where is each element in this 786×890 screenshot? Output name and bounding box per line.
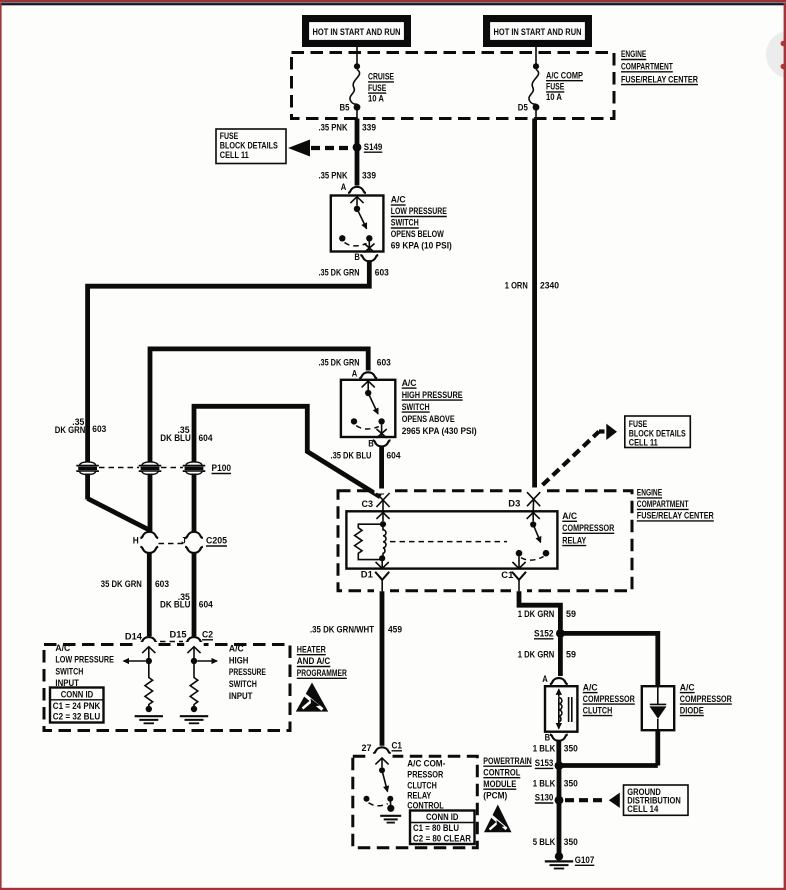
svg-text:DK GRN: DK GRN <box>55 425 86 435</box>
svg-text:C205: C205 <box>206 536 227 546</box>
svg-text:A: A <box>542 674 548 684</box>
svg-text:MODULE: MODULE <box>483 779 516 789</box>
svg-text:OPENS ABOVE: OPENS ABOVE <box>402 414 455 424</box>
svg-text:1 BLK: 1 BLK <box>533 778 556 788</box>
svg-text:FUSE: FUSE <box>220 131 239 141</box>
svg-text:10 A: 10 A <box>368 93 385 103</box>
svg-text:COMPRESSOR: COMPRESSOR <box>583 694 636 704</box>
svg-text:A: A <box>341 182 347 192</box>
svg-text:604: 604 <box>199 433 213 443</box>
svg-text:B5: B5 <box>340 102 350 112</box>
svg-text:HOT IN START AND RUN: HOT IN START AND RUN <box>494 27 582 37</box>
svg-text:CLUTCH: CLUTCH <box>583 705 613 715</box>
svg-text:.35 DK GRN: .35 DK GRN <box>319 267 360 277</box>
svg-text:FUSE/RELAY CENTER: FUSE/RELAY CENTER <box>637 511 715 521</box>
svg-text:A: A <box>352 369 358 379</box>
svg-text:A/C COM-: A/C COM- <box>407 758 445 768</box>
svg-text:J: J <box>181 536 186 546</box>
svg-text:PRESSOR: PRESSOR <box>407 769 444 779</box>
svg-text:COMPRESSOR: COMPRESSOR <box>562 523 615 533</box>
svg-text:1 DK GRN: 1 DK GRN <box>518 609 555 619</box>
svg-text:C1: C1 <box>501 570 513 580</box>
svg-text:HIGH PRESSURE: HIGH PRESSURE <box>402 390 463 400</box>
svg-text:27: 27 <box>362 743 372 753</box>
svg-text:350: 350 <box>564 778 578 788</box>
svg-text:5 BLK: 5 BLK <box>533 837 556 847</box>
svg-text:ENGINE: ENGINE <box>637 488 662 498</box>
svg-text:CONTROL: CONTROL <box>407 801 444 811</box>
svg-text:LOW PRESSURE: LOW PRESSURE <box>391 206 447 216</box>
svg-text:G107: G107 <box>575 855 595 865</box>
svg-text:CONN ID: CONN ID <box>61 689 93 699</box>
svg-text:69 KPA (10 PSI): 69 KPA (10 PSI) <box>391 241 452 251</box>
svg-text:SWITCH: SWITCH <box>391 218 419 228</box>
svg-text:DIODE: DIODE <box>680 705 704 715</box>
svg-text:2340: 2340 <box>540 281 559 291</box>
svg-text:A/C: A/C <box>391 195 406 205</box>
svg-text:PROGRAMMER: PROGRAMMER <box>297 668 347 678</box>
svg-text:C2 = 32 BLU: C2 = 32 BLU <box>53 712 101 722</box>
svg-text:A/C: A/C <box>402 378 417 388</box>
svg-text:FUSE: FUSE <box>546 82 564 92</box>
svg-text:350: 350 <box>564 837 578 847</box>
svg-text:604: 604 <box>199 600 213 610</box>
svg-text:COMPARTMENT: COMPARTMENT <box>637 499 689 509</box>
svg-text:B: B <box>354 252 360 262</box>
svg-text:C2: C2 <box>202 629 213 639</box>
svg-text:SWITCH: SWITCH <box>229 679 257 689</box>
svg-text:D14: D14 <box>125 631 142 641</box>
svg-text:LOW PRESSURE: LOW PRESSURE <box>55 655 114 665</box>
svg-text:2965 KPA (430 PSI): 2965 KPA (430 PSI) <box>402 426 477 436</box>
svg-text:HOT IN START AND RUN: HOT IN START AND RUN <box>313 27 401 37</box>
svg-text:D5: D5 <box>518 102 528 112</box>
svg-text:CELL 14: CELL 14 <box>627 804 658 814</box>
svg-text:S149: S149 <box>364 142 383 152</box>
svg-text:DK BLU: DK BLU <box>160 433 191 443</box>
svg-text:A/C: A/C <box>680 682 695 692</box>
svg-text:P100: P100 <box>212 463 232 473</box>
svg-text:DK BLU: DK BLU <box>160 600 191 610</box>
svg-text:INPUT: INPUT <box>229 691 253 701</box>
svg-text:C3: C3 <box>362 499 374 509</box>
svg-text:603: 603 <box>155 579 169 589</box>
svg-text:D3: D3 <box>508 498 520 508</box>
svg-text:FUSE: FUSE <box>368 83 386 93</box>
svg-text:603: 603 <box>375 267 389 277</box>
svg-text:S153: S153 <box>535 758 554 768</box>
svg-text:.35 DK GRN/WHT: .35 DK GRN/WHT <box>310 624 375 634</box>
svg-text:603: 603 <box>377 358 391 368</box>
svg-text:D15: D15 <box>170 629 187 639</box>
svg-text:ENGINE: ENGINE <box>621 49 646 59</box>
svg-text:.35 DK BLU: .35 DK BLU <box>331 451 372 461</box>
svg-text:S130: S130 <box>535 793 554 803</box>
svg-text:339: 339 <box>362 171 376 181</box>
svg-text:CELL 11: CELL 11 <box>629 437 658 447</box>
svg-text:COMPRESSOR: COMPRESSOR <box>680 694 733 704</box>
svg-text:59: 59 <box>566 609 576 619</box>
svg-text:10 A: 10 A <box>546 92 563 102</box>
svg-text:C1 = 24 PNK: C1 = 24 PNK <box>53 701 101 711</box>
svg-text:SWITCH: SWITCH <box>402 402 430 412</box>
svg-text:A/C: A/C <box>55 643 70 653</box>
svg-text:H: H <box>133 536 139 546</box>
svg-text:A/C: A/C <box>229 644 244 654</box>
svg-text:CELL 11: CELL 11 <box>220 150 249 160</box>
svg-text:D1: D1 <box>361 569 373 579</box>
svg-text:CLUTCH: CLUTCH <box>407 780 437 790</box>
svg-text:603: 603 <box>92 424 106 434</box>
svg-text:AND A/C: AND A/C <box>297 656 331 666</box>
svg-text:RELAY: RELAY <box>562 535 586 545</box>
svg-text:C2 = 80 CLEAR: C2 = 80 CLEAR <box>413 833 472 843</box>
svg-text:C1: C1 <box>392 740 403 750</box>
svg-text:POWERTRAIN: POWERTRAIN <box>483 756 532 766</box>
svg-text:.35 PNK: .35 PNK <box>319 171 349 181</box>
svg-text:339: 339 <box>362 122 376 132</box>
svg-text:A/C: A/C <box>562 511 577 521</box>
svg-text:350: 350 <box>564 743 578 753</box>
svg-text:S152: S152 <box>534 628 554 638</box>
svg-text:1 ORN: 1 ORN <box>505 281 528 291</box>
svg-text:35 DK GRN: 35 DK GRN <box>101 579 142 589</box>
svg-text:SWITCH: SWITCH <box>55 666 83 676</box>
svg-text:59: 59 <box>566 649 576 659</box>
svg-text:1 DK GRN: 1 DK GRN <box>518 649 555 659</box>
svg-text:FUSE/RELAY CENTER: FUSE/RELAY CENTER <box>621 74 699 84</box>
svg-text:PRESSURE: PRESSURE <box>229 667 266 677</box>
svg-text:CONTROL: CONTROL <box>483 767 521 777</box>
svg-text:C1 = 80 BLU: C1 = 80 BLU <box>413 823 459 833</box>
svg-text:FUSE: FUSE <box>629 419 648 429</box>
svg-text:A/C COMP: A/C COMP <box>546 70 583 80</box>
svg-text:HEATER: HEATER <box>297 644 327 654</box>
svg-text:1 BLK: 1 BLK <box>533 743 556 753</box>
svg-text:HIGH: HIGH <box>229 655 249 665</box>
svg-text:459: 459 <box>388 624 402 634</box>
svg-text:B: B <box>545 732 551 742</box>
svg-text:COMPARTMENT: COMPARTMENT <box>621 62 673 72</box>
svg-text:A/C: A/C <box>583 682 598 692</box>
svg-text:CRUISE: CRUISE <box>368 72 394 82</box>
svg-text:OPENS BELOW: OPENS BELOW <box>391 229 445 239</box>
svg-text:604: 604 <box>387 451 401 461</box>
svg-text:RELAY: RELAY <box>407 791 431 801</box>
svg-text:.35 DK GRN: .35 DK GRN <box>319 358 360 368</box>
svg-text:.35 PNK: .35 PNK <box>319 122 349 132</box>
svg-text:CONN ID: CONN ID <box>426 812 459 822</box>
svg-text:(PCM): (PCM) <box>483 790 507 800</box>
svg-text:BLOCK DETAILS: BLOCK DETAILS <box>220 141 278 151</box>
